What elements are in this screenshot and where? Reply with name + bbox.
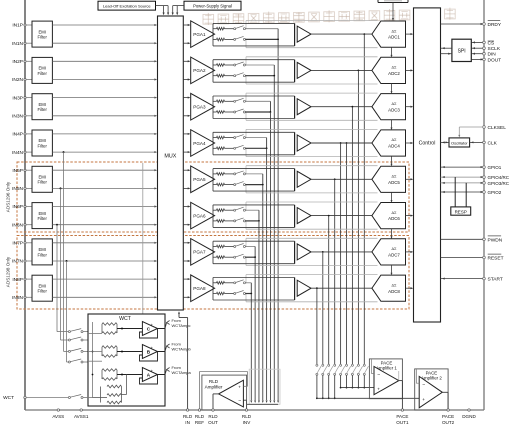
svg-text:ADC3: ADC3 — [388, 107, 400, 112]
svg-text:ΔΣ: ΔΣ — [392, 102, 398, 106]
svg-text:CS: CS — [488, 40, 495, 46]
svg-text:IN7N: IN7N — [12, 259, 23, 265]
svg-text:Power-Supply Signal: Power-Supply Signal — [193, 3, 232, 8]
svg-text:Amplifier: Amplifier — [205, 385, 223, 390]
svg-text:IN: IN — [185, 420, 190, 425]
svg-text:IN6P: IN6P — [12, 204, 23, 210]
svg-text:Control: Control — [419, 140, 436, 146]
svg-text:PACE: PACE — [442, 414, 454, 419]
svg-text:ADS1298 Only: ADS1298 Only — [6, 256, 11, 287]
svg-text:IN3N: IN3N — [12, 114, 23, 120]
svg-text:PGA5: PGA5 — [193, 177, 206, 182]
svg-text:DRDY: DRDY — [488, 22, 502, 28]
svg-text:PWDN: PWDN — [488, 237, 503, 243]
svg-text:WCT: WCT — [119, 316, 132, 322]
svg-text:RESP: RESP — [455, 209, 467, 214]
svg-text:Filter: Filter — [38, 143, 48, 148]
svg-text:ΔΣ: ΔΣ — [392, 211, 398, 215]
svg-text:START: START — [488, 277, 503, 283]
svg-text:OUT1: OUT1 — [396, 420, 409, 425]
svg-text:IN2P: IN2P — [12, 59, 23, 65]
svg-text:DGND: DGND — [462, 414, 476, 419]
svg-text:Lead-Off Excitation Source: Lead-Off Excitation Source — [103, 3, 152, 8]
svg-text:PGA3: PGA3 — [193, 105, 206, 110]
svg-text:IN4P: IN4P — [12, 132, 23, 138]
svg-text:RLD: RLD — [183, 414, 193, 419]
svg-text:WCTAmpb: WCTAmpb — [172, 347, 192, 352]
svg-text:−: − — [238, 398, 241, 404]
svg-text:+: + — [422, 397, 425, 402]
svg-text:RLD: RLD — [209, 379, 219, 384]
svg-text:IN7P: IN7P — [12, 241, 23, 247]
svg-text:SCLK: SCLK — [488, 46, 501, 52]
svg-text:Filter: Filter — [38, 71, 48, 76]
svg-text:GPIO3/RC: GPIO3/RC — [488, 181, 510, 186]
svg-text:Filter: Filter — [38, 252, 48, 257]
svg-text:Filter: Filter — [38, 289, 48, 294]
svg-text:PACE: PACE — [396, 414, 408, 419]
svg-text:ΔΣ: ΔΣ — [392, 283, 398, 287]
svg-text:ADC5: ADC5 — [388, 180, 400, 185]
svg-text:PGA7: PGA7 — [193, 250, 206, 255]
svg-text:ΔΣ: ΔΣ — [392, 247, 398, 251]
svg-text:GPIO2: GPIO2 — [488, 190, 502, 195]
svg-text:PGA1: PGA1 — [193, 32, 206, 37]
svg-text:RLD: RLD — [195, 414, 205, 419]
svg-text:DIN: DIN — [488, 52, 497, 58]
svg-text:WCT: WCT — [3, 395, 14, 401]
svg-text:AVSS1: AVSS1 — [74, 414, 89, 419]
svg-text:INV: INV — [243, 420, 252, 425]
svg-text:ADC6: ADC6 — [388, 216, 400, 221]
svg-text:IN6N: IN6N — [12, 222, 23, 228]
svg-text:RLD: RLD — [242, 414, 252, 419]
svg-text:ADC1: ADC1 — [388, 35, 400, 40]
svg-text:CLK: CLK — [488, 140, 498, 146]
svg-text:WCTAmpa: WCTAmpa — [172, 370, 192, 375]
svg-text:PGA6: PGA6 — [193, 213, 206, 218]
svg-text:IN8N: IN8N — [12, 295, 23, 301]
svg-text:PGA4: PGA4 — [193, 141, 206, 146]
svg-text:RLD: RLD — [208, 414, 218, 419]
svg-text:OUT: OUT — [208, 420, 218, 425]
svg-text:ADS1296 Only: ADS1296 Only — [6, 181, 11, 212]
svg-text:IN1P: IN1P — [12, 23, 23, 29]
svg-text:IN5N: IN5N — [12, 186, 23, 192]
svg-text:ADC8: ADC8 — [388, 289, 400, 294]
svg-text:IN4N: IN4N — [12, 150, 23, 156]
svg-text:+: + — [377, 387, 380, 392]
svg-text:REF: REF — [195, 420, 204, 425]
svg-text:GPIO4/RC: GPIO4/RC — [488, 175, 510, 180]
svg-text:RESET: RESET — [488, 256, 504, 262]
svg-text:ΔΣ: ΔΣ — [392, 138, 398, 142]
svg-text:−: − — [377, 372, 380, 378]
svg-text:IN8P: IN8P — [12, 277, 23, 283]
svg-text:CLKSEL: CLKSEL — [488, 125, 507, 131]
svg-text:ADC7: ADC7 — [388, 253, 400, 258]
svg-text:IN2N: IN2N — [12, 77, 23, 83]
svg-text:Filter: Filter — [38, 216, 48, 221]
svg-text:PGA2: PGA2 — [193, 68, 206, 73]
svg-text:IN5P: IN5P — [12, 168, 23, 174]
svg-text:MUX: MUX — [164, 154, 176, 160]
svg-text:Filter: Filter — [38, 107, 48, 112]
svg-text:IN1N: IN1N — [12, 41, 23, 47]
svg-text:OUT2: OUT2 — [442, 420, 455, 425]
svg-text:Filter: Filter — [38, 35, 48, 40]
svg-text:ΔΣ: ΔΣ — [392, 175, 398, 179]
svg-text:−: − — [422, 382, 425, 388]
svg-text:PGA8: PGA8 — [193, 286, 206, 291]
svg-text:ADC2: ADC2 — [388, 71, 400, 76]
svg-text:IN3P: IN3P — [12, 95, 23, 101]
svg-text:PACE: PACE — [381, 360, 393, 365]
svg-text:DOUT: DOUT — [488, 57, 502, 63]
svg-text:SPI: SPI — [458, 48, 466, 54]
svg-text:GPIO1: GPIO1 — [488, 165, 502, 170]
svg-text:ΔΣ: ΔΣ — [392, 29, 398, 33]
svg-text:Filter: Filter — [38, 180, 48, 185]
svg-text:AVSS: AVSS — [52, 414, 64, 419]
svg-text:Oscillator: Oscillator — [451, 141, 468, 146]
svg-text:PACE: PACE — [426, 370, 438, 375]
svg-text:ADC4: ADC4 — [388, 144, 400, 149]
svg-text:+: + — [238, 385, 241, 390]
svg-text:ΔΣ: ΔΣ — [392, 66, 398, 70]
